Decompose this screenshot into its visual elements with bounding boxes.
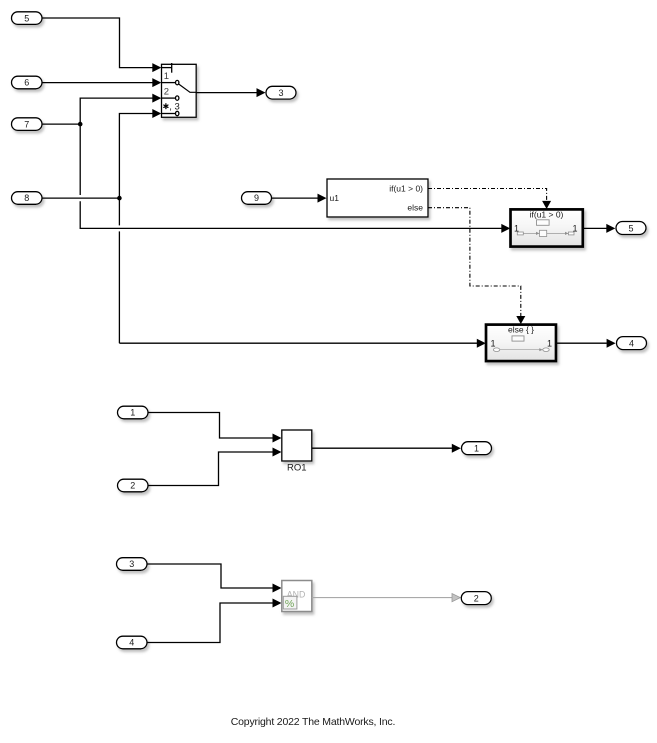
svg-text:2: 2 <box>474 593 479 603</box>
svg-text:4: 4 <box>629 338 634 348</box>
svg-text:5: 5 <box>24 13 29 23</box>
svg-text:8: 8 <box>24 193 29 203</box>
wire inport3 to AND input 1 <box>147 564 282 593</box>
dash-dot wire if output to if action subsystem <box>428 189 551 210</box>
wire else action subsystem to outport 4 <box>556 339 616 348</box>
svg-text:1: 1 <box>164 71 169 82</box>
svg-text:if(u1 > 0): if(u1 > 0) <box>389 183 423 193</box>
outport 3 <box>266 86 296 99</box>
multiport switch block <box>162 63 197 117</box>
svg-text:if(u1 > 0): if(u1 > 0) <box>530 210 564 220</box>
gray wire AND to outport 2 <box>312 594 461 602</box>
inport 6 <box>12 76 43 89</box>
svg-text:2: 2 <box>164 86 169 97</box>
wire inport4 to AND input 2 <box>147 599 282 643</box>
svg-text:3: 3 <box>129 559 134 569</box>
dash-dot wire else output to else action subsystem <box>428 208 525 324</box>
inport 3 <box>117 558 148 571</box>
svg-text:%: % <box>285 598 294 610</box>
wire if action subsystem to outport 5 <box>583 224 615 233</box>
svg-text:7: 7 <box>24 119 29 129</box>
AND block (commented out) <box>282 581 312 612</box>
outport 4 <box>617 337 647 350</box>
svg-text:else: else <box>407 203 423 213</box>
inport 9 <box>242 192 272 205</box>
svg-text:1: 1 <box>130 408 135 418</box>
inport 2 <box>118 479 149 492</box>
else action subsystem <box>486 325 556 362</box>
wire switch to outport 3 <box>196 88 265 97</box>
if block <box>327 179 428 217</box>
wire inport2 to RO1 input 2 <box>148 448 282 486</box>
svg-text:else { }: else { } <box>508 325 534 335</box>
inport 1 <box>118 406 149 419</box>
svg-text:RO1: RO1 <box>287 463 307 474</box>
svg-text:9: 9 <box>254 193 259 203</box>
wire RO1 to outport 1 <box>312 444 461 453</box>
outport 5 <box>616 222 646 235</box>
wire inport1 to RO1 input 1 <box>148 413 282 443</box>
svg-text:6: 6 <box>24 78 29 88</box>
svg-text:1: 1 <box>547 339 552 349</box>
wire inport9 to if block u1 <box>272 194 327 203</box>
inport 5 <box>12 12 43 25</box>
wire inport6 to switch input 1 <box>42 78 161 87</box>
wire inport5 to switch control input <box>42 18 161 72</box>
outport 1 <box>462 442 492 455</box>
if action subsystem if(u1 > 0) <box>511 209 583 246</box>
svg-text:1: 1 <box>474 444 479 454</box>
svg-text:3: 3 <box>278 88 283 98</box>
svg-text:1: 1 <box>491 339 496 349</box>
inport 8 <box>12 192 43 205</box>
svg-text:Copyright 2022 The MathWorks,: Copyright 2022 The MathWorks, Inc. <box>231 716 396 728</box>
svg-text:4: 4 <box>129 638 134 648</box>
inport 4 <box>117 636 148 649</box>
copyright text <box>231 716 396 728</box>
svg-text:5: 5 <box>628 223 633 233</box>
wire inport8 to switch input *,3 and to else action subsystem <box>42 109 486 348</box>
block RO1 <box>282 430 312 474</box>
inport 7 <box>12 118 43 131</box>
svg-text:u1: u1 <box>330 193 340 203</box>
wire inport7 to switch input 2 and to if action subsystem <box>42 94 510 233</box>
outport 2 <box>461 592 491 605</box>
svg-text:2: 2 <box>130 481 135 491</box>
